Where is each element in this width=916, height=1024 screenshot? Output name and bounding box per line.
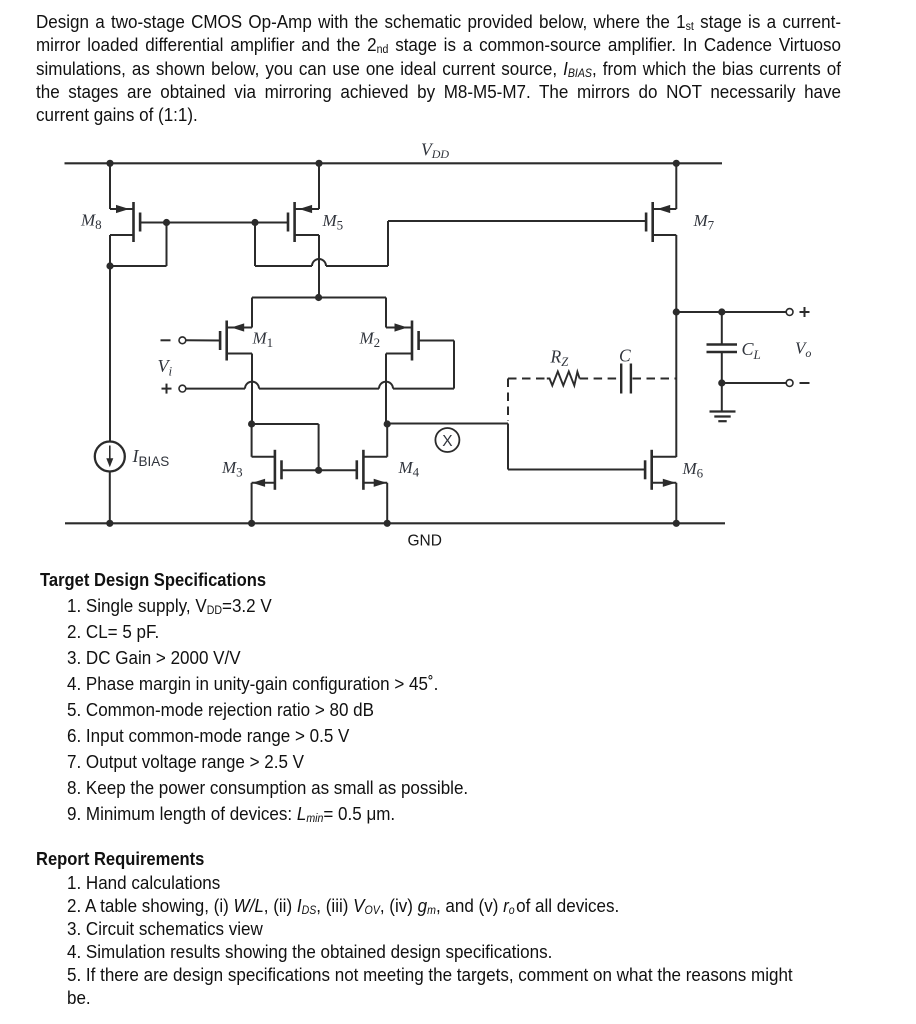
svg-text:M8: M8 xyxy=(80,211,102,233)
svg-text:M3: M3 xyxy=(221,458,243,480)
svg-text:M4: M4 xyxy=(398,458,420,480)
svg-text:M2: M2 xyxy=(359,329,381,351)
svg-text:Vi: Vi xyxy=(158,356,173,379)
svg-text:RZ: RZ xyxy=(550,347,570,370)
svg-text:CL: CL xyxy=(742,339,761,362)
svg-text:X: X xyxy=(442,433,453,450)
svg-text:M1: M1 xyxy=(252,329,274,351)
svg-text:M7: M7 xyxy=(693,211,715,233)
svg-text:M5: M5 xyxy=(322,211,344,233)
svg-text:IBIAS: IBIAS xyxy=(132,446,170,469)
svg-text:GND: GND xyxy=(408,533,442,550)
svg-text:Vo: Vo xyxy=(795,339,811,361)
svg-text:VDD: VDD xyxy=(421,140,449,162)
svg-text:C: C xyxy=(619,346,631,366)
svg-text:M6: M6 xyxy=(682,459,704,481)
